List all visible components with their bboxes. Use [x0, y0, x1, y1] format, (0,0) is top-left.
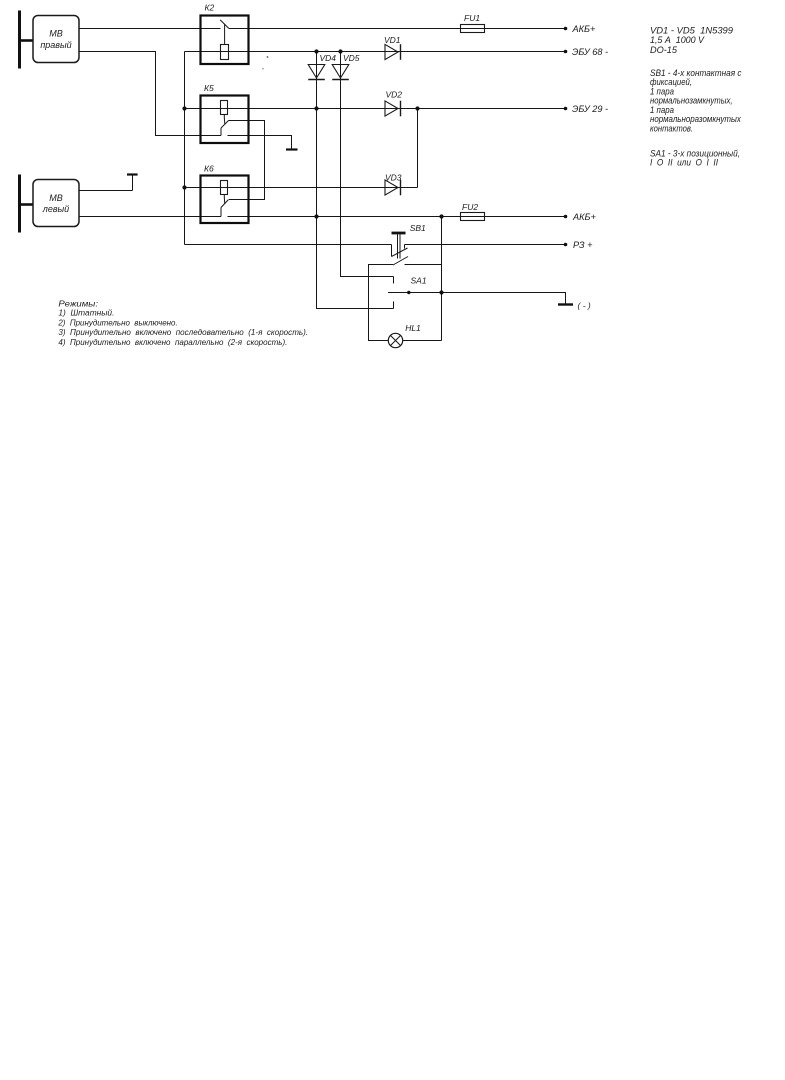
- svg-text:РЗ +: РЗ +: [573, 240, 593, 250]
- diode VD5 cathode bar: [332, 79, 349, 81]
- svg-text:АКБ+: АКБ+: [572, 24, 597, 34]
- minus terminal ground bar: [558, 303, 573, 305]
- svg-text:К5: К5: [204, 83, 214, 93]
- wire EBU29 line through K5 coil: [185, 108, 566, 110]
- diode VD1 cathode bar: [400, 44, 402, 60]
- svg-text:VD3: VD3: [385, 173, 402, 183]
- svg-text:АКБ+: АКБ+: [572, 212, 597, 222]
- fuse FU1: [461, 25, 485, 33]
- junction node AKB+ lower: [564, 215, 568, 219]
- junction node EBU68 end: [564, 50, 568, 54]
- wire K6 coil line to VD3: [185, 187, 418, 189]
- svg-text:I O II или О I II: I O II или О I II: [650, 157, 718, 167]
- wire VD4 rail (EBU68 to SA1 lower contact): [317, 52, 394, 309]
- relay K6 armature link: [223, 195, 226, 205]
- lamp HL1 circle: [388, 333, 402, 347]
- fuse FU2: [461, 213, 485, 221]
- button SB1 plunger stem left: [397, 234, 399, 258]
- svg-text:1) Штатный.: 1) Штатный.: [58, 308, 114, 318]
- wire left coil rail: [184, 52, 186, 245]
- button SB1 plunger T-bar: [392, 232, 406, 235]
- relay K5 armature link: [223, 115, 226, 125]
- wire K5 NC contact to K6 NC contact: [229, 121, 265, 200]
- relay K5 switch arm: [221, 121, 229, 129]
- svg-text:VD5: VD5: [343, 53, 360, 63]
- svg-text:К6: К6: [204, 163, 214, 173]
- svg-text:VD2: VD2: [386, 90, 403, 100]
- svg-text:FU2: FU2: [462, 202, 478, 212]
- junction VD4 FU2 line: [314, 214, 318, 218]
- wire MB left t2 to K6 common: [79, 216, 221, 218]
- svg-text:VD4: VD4: [320, 53, 337, 63]
- button SB1 NC contact arm: [392, 248, 408, 257]
- lamp HL1 cross stroke 2: [390, 335, 400, 345]
- relay K2 switch arm: [220, 20, 229, 29]
- ground bar near K5: [286, 148, 298, 150]
- relay K2 box: [201, 16, 249, 65]
- svg-text:4) Принудительно включено п: 4) Принудительно включено параллельно (2…: [58, 337, 287, 347]
- junction FU2 tap rail: [439, 214, 443, 218]
- junction SA1 pole rail: [439, 290, 443, 294]
- svg-text:контактов.: контактов.: [650, 123, 693, 133]
- diode VD3 cathode bar: [400, 180, 402, 196]
- diode VD2 triangle: [385, 101, 398, 116]
- svg-text:DO-15: DO-15: [650, 45, 678, 55]
- svg-text:МВ: МВ: [49, 193, 63, 203]
- wire RZ+ line right of SB1: [405, 244, 566, 246]
- button SB1 NO contact arm: [393, 257, 408, 266]
- wire EBU68 line through K2 coil: [185, 51, 566, 53]
- svg-text:SB1: SB1: [410, 223, 426, 233]
- diode VD2 cathode bar: [400, 101, 402, 117]
- junction node EBU29 end: [564, 107, 568, 111]
- lamp HL1 cross stroke 1: [390, 335, 400, 345]
- stray speck 2: [262, 68, 263, 69]
- wire MB left t1 to chassis: [79, 190, 133, 192]
- wire K5 NO fixed contact to ground: [228, 136, 292, 150]
- wire SB1 NO right terminal riser: [405, 264, 442, 266]
- relay K2 coil: [221, 45, 229, 60]
- relay K5 coil: [221, 101, 228, 115]
- relay K6 coil: [221, 181, 228, 195]
- junction rail K5 coil: [182, 106, 186, 110]
- chassis T symbol above MB left: [132, 176, 134, 191]
- wire MB right t1 to K2 switch: [79, 28, 221, 30]
- button SB1 NC left terminal stub: [391, 245, 393, 257]
- junction node AKB+ top: [564, 27, 568, 31]
- wire VD3 cathode riser to EBU29 line: [417, 109, 419, 188]
- switch SA1 lower contact tick: [393, 302, 395, 309]
- diode VD4 triangle: [308, 65, 325, 79]
- diode VD5 triangle: [332, 65, 349, 79]
- switch SA1 pivot dot: [407, 291, 410, 294]
- relay K6 common stub: [220, 208, 222, 217]
- junction VD4 top: [314, 49, 318, 53]
- button SB1 plunger stem right: [399, 234, 401, 258]
- wire K2 contact to FU1 and AKB+: [229, 28, 566, 30]
- svg-text:правый: правый: [40, 40, 71, 50]
- wire FU2 tap rail down to lamp right side: [441, 217, 443, 341]
- junction node RZ+ end: [564, 243, 568, 247]
- wire K6 NO fixed contact to FU2 and AKB+: [228, 216, 566, 218]
- motor MB right terminal bar: [18, 11, 21, 69]
- relay K5 box: [201, 96, 249, 144]
- motor MB left terminal bar: [18, 175, 21, 233]
- stray speck 1: [267, 56, 269, 58]
- svg-text:SA1: SA1: [411, 275, 427, 285]
- wire VD5 rail (EBU68 to SA1 upper contact): [341, 52, 394, 277]
- wire SA1 pole line to minus terminal: [388, 293, 566, 304]
- wire SB1 NO left terminal to lamp: [369, 265, 394, 341]
- svg-text:2) Принудительно выключено.: 2) Принудительно выключено.: [57, 317, 177, 327]
- diode VD3 triangle: [385, 180, 398, 195]
- junction VD2 cathode node: [415, 106, 419, 110]
- motor MB left box: [33, 180, 79, 227]
- relay K6 switch arm: [221, 200, 229, 208]
- svg-text:ЭБУ 68 -: ЭБУ 68 -: [572, 47, 608, 57]
- junction VD4 EBU29: [314, 106, 318, 110]
- svg-text:3) Принудительно включено п: 3) Принудительно включено последовательн…: [58, 327, 308, 337]
- switch SA1 upper contact tick: [393, 277, 395, 284]
- motor MB right box: [33, 16, 79, 63]
- svg-text:1,5 А 1000 V: 1,5 А 1000 V: [650, 35, 705, 45]
- relay K5 common stub: [220, 128, 222, 136]
- diode VD4 cathode bar: [308, 79, 325, 81]
- svg-text:HL1: HL1: [405, 323, 421, 333]
- diode VD1 triangle: [385, 44, 398, 59]
- svg-text:ЭБУ 29 -: ЭБУ 29 -: [572, 104, 608, 114]
- svg-text:МВ: МВ: [49, 29, 63, 39]
- junction VD5 top: [338, 49, 342, 53]
- wire lamp right to SA1 pole rail: [403, 340, 442, 342]
- wire MB right t2 to K5 common: [79, 52, 221, 136]
- motor MB left connector stub: [21, 203, 34, 206]
- motor MB right connector stub: [21, 39, 34, 42]
- relay K2 armature link: [224, 24, 226, 44]
- relay K6 box: [201, 176, 249, 224]
- svg-text:FU1: FU1: [464, 13, 480, 23]
- button SB1 NC right terminal stub: [404, 245, 406, 249]
- svg-text:VD1: VD1: [384, 35, 401, 45]
- svg-text:( - ): ( - ): [578, 301, 591, 311]
- wire RZ+ line: [185, 244, 392, 246]
- svg-text:левый: левый: [42, 204, 69, 214]
- svg-text:К2: К2: [205, 3, 215, 13]
- junction rail K6 coil: [182, 185, 186, 189]
